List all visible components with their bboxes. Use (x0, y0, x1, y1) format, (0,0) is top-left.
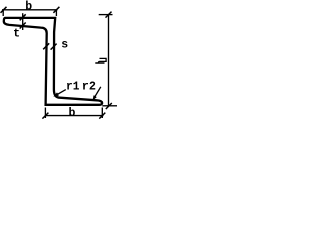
svg-text:s: s (61, 38, 68, 51)
svg-text:b: b (69, 107, 76, 120)
svg-text:r2: r2 (82, 81, 96, 94)
svg-text:r1: r1 (66, 81, 79, 94)
svg-text:t: t (13, 27, 20, 40)
svg-text:b: b (25, 1, 32, 14)
